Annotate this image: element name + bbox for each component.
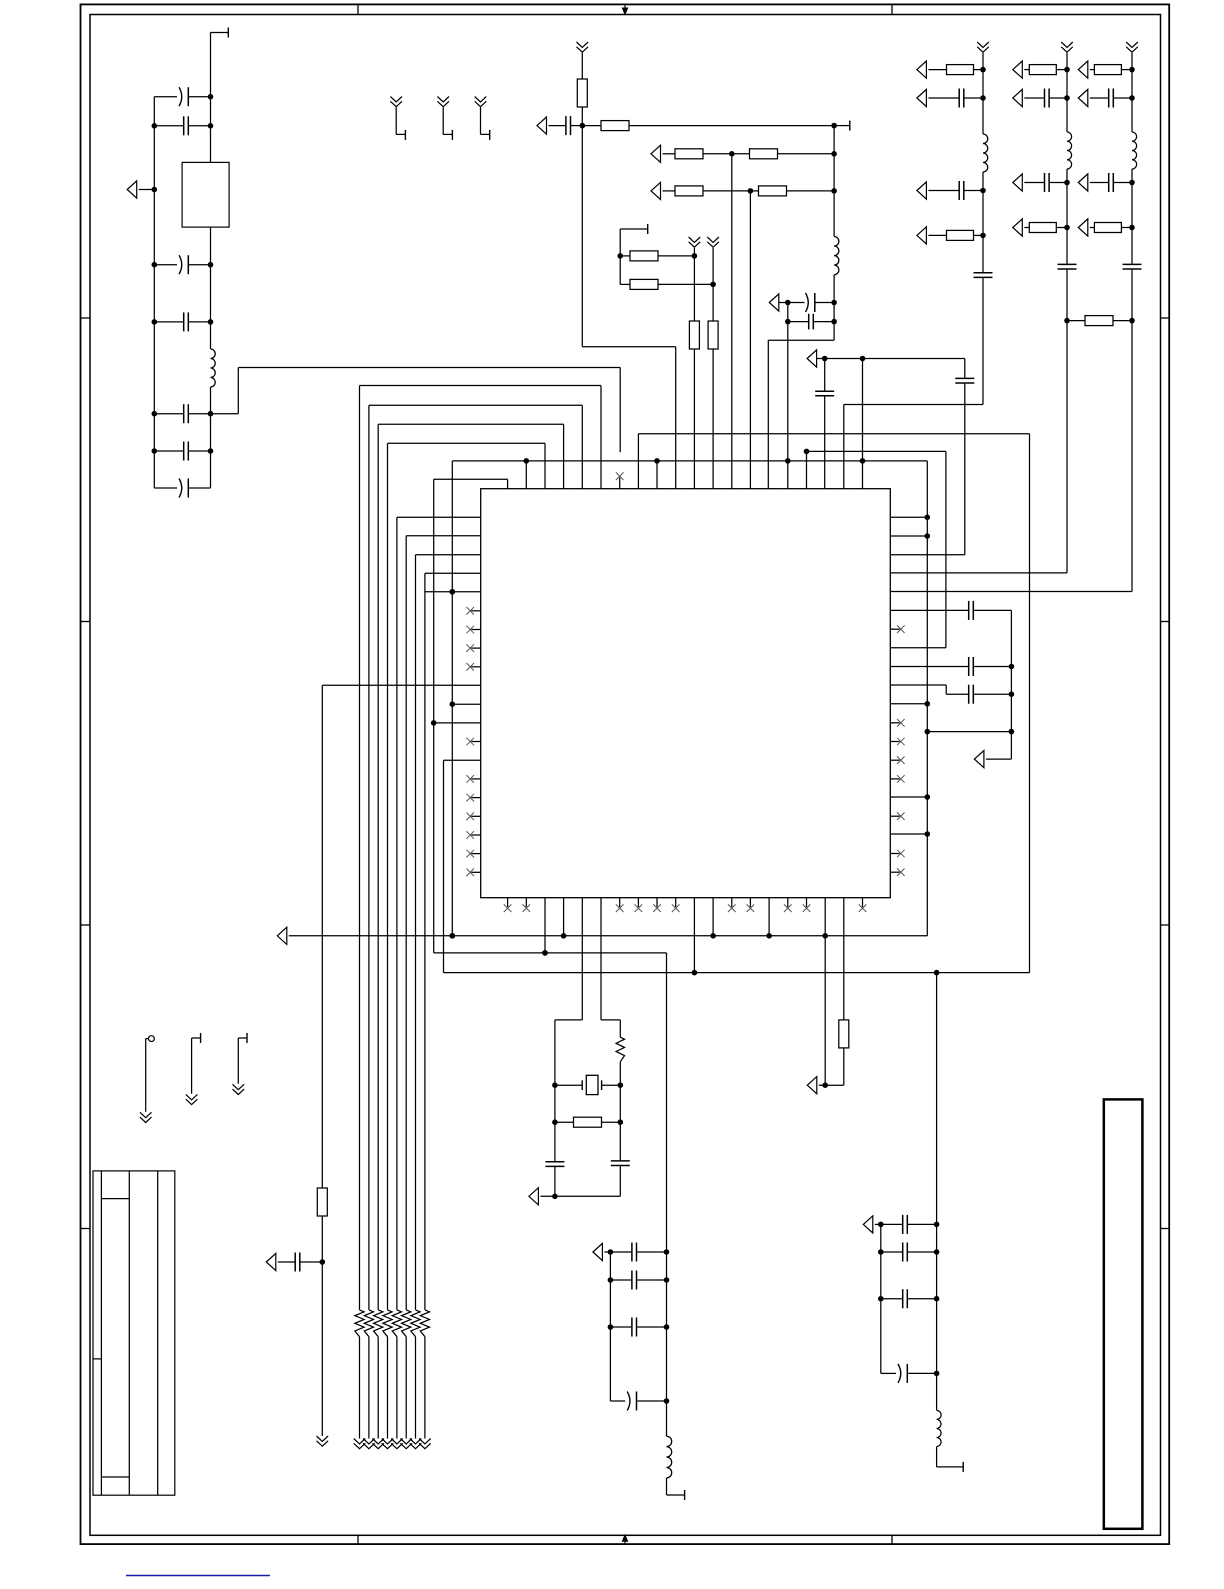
right bank left rail — [880, 1224, 882, 1373]
no-connect mark — [897, 738, 905, 746]
ground chevron TP3 — [233, 1084, 245, 1094]
right NC stub — [890, 722, 899, 724]
bottom NC stub — [656, 898, 658, 907]
border tick right 3 — [1161, 924, 1169, 926]
capacitor C7 — [179, 479, 188, 498]
right pin wire — [890, 516, 927, 518]
capacitor C35 — [898, 1364, 907, 1383]
power flag PF19 — [974, 751, 984, 768]
junction — [1064, 225, 1070, 231]
wire C9 leads — [788, 302, 834, 304]
rail N3 lower — [833, 275, 835, 303]
no-connect mark — [466, 738, 474, 746]
capacitor C27 — [611, 1161, 630, 1166]
resistor R17 — [1085, 316, 1113, 326]
junction — [664, 1324, 670, 1330]
junction — [450, 589, 456, 595]
resistor R7 — [630, 251, 658, 261]
terminal TP3 — [246, 1033, 248, 1043]
wire BE2 — [443, 107, 452, 134]
right NC stub — [890, 628, 899, 630]
net pin k17 — [824, 359, 826, 489]
capacitor C2 — [184, 116, 189, 135]
net stair v8 — [425, 573, 481, 1310]
net vertical B — [974, 610, 1012, 759]
junction — [1129, 225, 1135, 231]
bottom pin k11 net — [712, 898, 714, 936]
wire C25 to rail — [300, 1261, 322, 1263]
junction — [152, 187, 158, 193]
border tick right 4 — [1161, 1228, 1169, 1230]
capacitor C21 — [1123, 264, 1142, 269]
ground chevron RN8 — [419, 1439, 431, 1449]
wire C16 leads — [1024, 97, 1067, 99]
net stair v6 — [406, 536, 481, 1310]
capacitor C29 — [632, 1271, 637, 1290]
crystal Y1 — [582, 1075, 601, 1094]
no-connect mark — [897, 812, 905, 820]
wire BE3 — [481, 107, 490, 134]
right NC stub — [890, 759, 899, 761]
wire R6 to rail — [787, 190, 835, 192]
right pin wire — [890, 703, 927, 705]
terminal BE1 — [404, 130, 406, 140]
bottom NC stub — [749, 898, 751, 907]
no-connect mark — [897, 756, 905, 764]
wire RN6 lower — [405, 1337, 407, 1439]
resistor R15 — [1094, 65, 1121, 75]
right NC stub — [890, 871, 899, 873]
IC U1 — [481, 489, 891, 898]
capacitor C20 — [1109, 173, 1114, 192]
power flag PF24 — [593, 1243, 603, 1260]
net stair v3 — [378, 424, 563, 1310]
junction — [831, 319, 837, 325]
wire R21 leads — [555, 1121, 620, 1123]
junction — [1064, 67, 1070, 73]
net right rail x936 — [936, 973, 938, 1411]
junction — [710, 933, 716, 939]
capacitor C18 — [1058, 264, 1077, 269]
power flag PF16 — [1078, 89, 1088, 106]
inductor L5 — [1132, 132, 1137, 169]
wire RN1 lower — [359, 1337, 361, 1439]
junction — [822, 1082, 828, 1088]
junction — [785, 319, 791, 325]
net pin row10 long — [322, 685, 480, 1188]
net stair top pin k0 — [434, 479, 508, 488]
ground chevron RN7 — [410, 1439, 422, 1449]
resistor R1 — [577, 79, 587, 107]
right pin wire — [890, 535, 927, 537]
power flag PF8 — [917, 89, 927, 106]
no-connect mark — [635, 904, 643, 912]
bottom NC stub — [525, 898, 527, 907]
capacitor C3 — [179, 255, 188, 274]
no-connect mark — [859, 904, 867, 912]
power flag PF25 — [863, 1216, 873, 1233]
junction — [654, 458, 660, 464]
crystal left rail — [555, 898, 582, 1197]
terminal T2 — [849, 121, 851, 131]
wire C8 to node — [571, 125, 582, 127]
wire PF4 to R5 — [663, 190, 676, 192]
bottom NC stub — [806, 898, 808, 907]
power flag PF23 — [529, 1188, 539, 1205]
junction — [934, 1222, 940, 1228]
terminal T3 — [647, 224, 649, 234]
crystal bottom wire — [540, 1195, 620, 1197]
title block frame — [93, 1171, 175, 1495]
junction — [1129, 95, 1135, 101]
net stair v2 — [369, 405, 582, 1310]
border tick left 4 — [81, 1228, 91, 1230]
junction — [860, 356, 866, 362]
node N1 right rail lower — [210, 227, 212, 488]
rail node N3 — [833, 126, 835, 237]
junction — [831, 151, 837, 157]
wire RN8 lower — [424, 1337, 426, 1439]
wire BE4 to R1 — [581, 53, 583, 79]
node N2 left rail — [153, 97, 155, 488]
left NC stub — [471, 629, 480, 631]
junction — [152, 123, 158, 129]
net stair left pin row5 — [425, 591, 481, 593]
wire R14 leads — [1024, 227, 1067, 229]
resistor R20 zigzag — [616, 1037, 624, 1062]
border tick right 1 — [1161, 317, 1169, 319]
power flag PF4 — [651, 182, 661, 199]
border center mark top — [622, 4, 629, 15]
resistor RN1 zigzag — [355, 1310, 364, 1337]
A-B bridge — [927, 731, 1011, 733]
no-connect mark — [466, 626, 474, 634]
crystal right rail upper — [601, 898, 620, 1037]
left NC stub — [471, 815, 480, 817]
capacitor C1 — [179, 87, 188, 106]
hyperlink underline — [126, 1575, 270, 1577]
wire L-terminal — [620, 228, 647, 230]
capacitor C12 — [955, 378, 974, 383]
resistor R14 — [1029, 223, 1056, 233]
bottom NC stub — [637, 898, 639, 907]
bottom NC stub — [862, 898, 864, 907]
resistor R4 — [750, 149, 778, 159]
junction — [925, 729, 931, 735]
wire C28 leads — [610, 1251, 666, 1253]
junction — [785, 300, 791, 306]
power flag PF12 — [1013, 89, 1023, 106]
junction — [766, 933, 772, 939]
power flag PF1 — [127, 181, 137, 198]
bus entry symbol BE1 — [390, 97, 402, 107]
wire R7 leads — [620, 255, 694, 257]
inductor L3 — [983, 134, 988, 172]
resistor R12 — [947, 230, 974, 240]
border tick left 2 — [81, 621, 91, 623]
junction — [664, 1249, 670, 1255]
wire to terminal T2 — [834, 125, 849, 127]
inductor L1 — [211, 349, 216, 387]
wire PF25 — [875, 1223, 881, 1225]
capacitor C34 — [903, 1289, 908, 1308]
rail3 segment — [890, 53, 1132, 592]
ground chevron RN6 — [400, 1439, 412, 1449]
junction — [878, 1296, 884, 1302]
wire R16 leads — [1090, 227, 1132, 229]
power flag PF10 — [917, 227, 927, 244]
junction — [980, 188, 986, 194]
bottom pin k17 net — [824, 898, 826, 1085]
wire TP3 — [238, 1038, 246, 1084]
wire C30 leads — [610, 1326, 666, 1328]
resistor R18 — [317, 1188, 327, 1216]
net pin k10 lower — [693, 349, 695, 489]
wire node to R2 — [582, 125, 601, 127]
bottom NC stub — [619, 898, 621, 907]
power flag PF15 — [1078, 61, 1088, 78]
capacitor C4 — [184, 312, 189, 331]
junction — [450, 933, 456, 939]
no-connect mark — [728, 904, 736, 912]
capacitor C24 — [969, 685, 974, 704]
inductor L2 — [834, 237, 839, 275]
rail2 segment — [890, 53, 1067, 573]
net mid rail — [666, 953, 668, 1436]
bottom NC stub — [731, 898, 733, 907]
wire C6 leads — [154, 450, 210, 452]
junction — [664, 1277, 670, 1283]
net to pin k9 — [582, 126, 675, 489]
junction — [152, 319, 158, 325]
wire R2 to terminal — [629, 125, 834, 127]
power flag PF9 — [917, 182, 927, 199]
terminal TP2 — [200, 1033, 202, 1043]
ground chevron RN3 — [372, 1439, 384, 1449]
wire RN3 lower — [377, 1337, 379, 1439]
no-connect mark — [653, 904, 661, 912]
title block row lines — [93, 1199, 129, 1477]
net pin k16 line — [807, 451, 946, 647]
left pin row11 wire — [434, 722, 481, 724]
net stair v5 — [397, 517, 481, 1310]
power flag PF20 — [266, 1253, 276, 1270]
bottom pin k3 net — [563, 898, 565, 936]
junction — [208, 319, 214, 325]
junction — [152, 448, 158, 454]
capacitor C33 — [903, 1243, 908, 1262]
no-connect mark — [672, 904, 680, 912]
wire BE1 — [396, 107, 405, 134]
right pin r8 wire — [890, 666, 968, 668]
net pin k11 lower — [712, 349, 714, 489]
ground chevron RN4 — [382, 1439, 394, 1449]
resistor RN2 zigzag — [364, 1310, 373, 1337]
junction — [608, 1324, 614, 1330]
junction — [580, 123, 586, 129]
power flag PF18 — [1078, 219, 1088, 236]
net to pin k14 — [768, 303, 834, 489]
junction — [1009, 691, 1015, 697]
capacitor C5 — [184, 404, 189, 423]
resistor RN5 zigzag — [392, 1310, 401, 1337]
bottom pin k2 net — [544, 898, 546, 953]
net cap C12 to right pin r2 — [890, 359, 965, 555]
junction — [542, 950, 548, 956]
left NC stub — [471, 778, 480, 780]
junction — [431, 720, 437, 726]
wire C17 leads — [1024, 182, 1067, 184]
net NC top line — [638, 434, 1029, 973]
bus entry BE6 — [707, 237, 719, 247]
wire R4 to rail — [778, 153, 835, 155]
wire C5 leads — [154, 413, 210, 415]
bus entry BE5 — [689, 237, 701, 247]
capacitor C15 — [974, 273, 993, 278]
no-connect mark — [523, 904, 531, 912]
resistor R19 — [839, 1020, 849, 1048]
no-connect mark — [616, 904, 624, 912]
capacitor C13 — [959, 89, 964, 108]
wire R1 to node — [581, 107, 583, 126]
left NC stub — [471, 666, 480, 668]
capacitor C9 — [806, 293, 815, 312]
capacitor C14 — [959, 181, 964, 200]
connector J1 — [1104, 1099, 1143, 1528]
right pin r9 wire — [890, 685, 968, 694]
junction — [152, 262, 158, 268]
wire C33 leads — [881, 1251, 937, 1253]
rail1 segment — [844, 53, 983, 405]
wire C23 to B — [974, 666, 1012, 668]
junction — [552, 1119, 558, 1125]
junction — [320, 1259, 326, 1265]
wire C4 leads — [154, 321, 210, 323]
junction — [804, 449, 810, 455]
node VDD bus — [452, 461, 927, 936]
mid bank left rail — [609, 1252, 611, 1401]
junction — [785, 458, 791, 464]
bus entry BE7 — [977, 42, 989, 52]
net stair v7 — [416, 555, 481, 1310]
power flag PF3 — [651, 145, 661, 162]
wire RN2 lower — [368, 1337, 370, 1439]
capacitor C23 — [969, 657, 974, 676]
capacitor C19 — [1109, 89, 1114, 108]
no-connect mark — [466, 644, 474, 652]
junction — [692, 253, 698, 259]
wire RN4 lower — [387, 1337, 389, 1439]
net stair v1 — [360, 386, 602, 1310]
terminal T5 — [962, 1462, 964, 1472]
wire R3 to node — [703, 153, 732, 155]
junction — [831, 123, 837, 129]
R19 to arrow row — [819, 1048, 844, 1085]
wire C35 leads — [881, 1372, 937, 1374]
capacitor C25 — [295, 1253, 300, 1272]
junction — [925, 533, 931, 539]
resistor R21 — [574, 1117, 602, 1127]
junction — [1129, 180, 1135, 186]
resistor R5 — [675, 186, 703, 196]
ground chevron RN5 — [391, 1439, 403, 1449]
wire R12 leads — [928, 234, 983, 236]
junction — [748, 188, 754, 194]
resistor R11 — [947, 65, 974, 75]
wire R8 leads — [620, 283, 713, 285]
wire TP2 — [192, 1038, 201, 1094]
wire node to R6 — [750, 190, 758, 192]
wire C3 leads — [154, 264, 210, 266]
wire C19 leads — [1090, 97, 1132, 99]
junction — [878, 1249, 884, 1255]
wire C24 to B — [974, 693, 1012, 695]
junction — [831, 300, 837, 306]
left NC stub — [471, 647, 480, 649]
junction — [860, 458, 866, 464]
net pin k11 — [712, 248, 714, 321]
inductor L7 — [937, 1410, 942, 1446]
junction — [450, 701, 456, 707]
bottom NC stub — [675, 898, 677, 907]
wire C32 leads — [881, 1223, 937, 1225]
resistor R2 — [601, 121, 629, 131]
terminal BE3 — [489, 130, 491, 140]
net pin k10 — [693, 248, 695, 321]
no-connect mark — [466, 850, 474, 858]
wire PF5 to rail — [779, 302, 788, 304]
border tick bottom 2 — [891, 1535, 893, 1544]
net pin k13 — [749, 191, 751, 489]
right NC stub — [890, 741, 899, 743]
net vertical x433.7 — [434, 479, 667, 953]
junction — [552, 1194, 558, 1200]
capacitor C26 — [545, 1162, 564, 1167]
junction — [608, 1249, 614, 1255]
bus entry symbol BE3 — [475, 97, 487, 107]
capacitor C6 — [184, 442, 189, 461]
resistor RN3 zigzag — [374, 1310, 383, 1337]
capacitor C16 — [1045, 89, 1050, 108]
wire PF6 row — [817, 358, 965, 360]
resistor R16 — [1094, 223, 1121, 233]
wire C14 leads — [928, 190, 983, 192]
no-connect mark — [897, 719, 905, 727]
border tick top 1 — [357, 4, 359, 14]
power flag PF17 — [1078, 174, 1088, 191]
power flag PF11 — [1013, 61, 1023, 78]
junction — [1064, 180, 1070, 186]
wire C29 leads — [610, 1279, 666, 1281]
left NC stub — [471, 871, 480, 873]
border tick top 2 — [891, 4, 893, 14]
wire R11 leads — [928, 69, 983, 71]
net stair v4 — [388, 443, 546, 1310]
junction — [552, 1082, 558, 1088]
junction — [450, 589, 456, 595]
border tick left 3 — [81, 924, 91, 926]
border tick bottom 1 — [357, 1535, 359, 1544]
junction — [208, 411, 214, 417]
wire L7 to terminal — [937, 1447, 963, 1467]
resistor R10 — [708, 321, 718, 349]
bus entry symbol BE2 — [437, 97, 449, 107]
wire T3 rail — [619, 229, 621, 284]
left NC stub — [471, 610, 480, 612]
bottom pin k14 net — [768, 898, 770, 936]
inductor L6 — [667, 1436, 672, 1478]
net vertical x443.5 — [444, 760, 1030, 972]
